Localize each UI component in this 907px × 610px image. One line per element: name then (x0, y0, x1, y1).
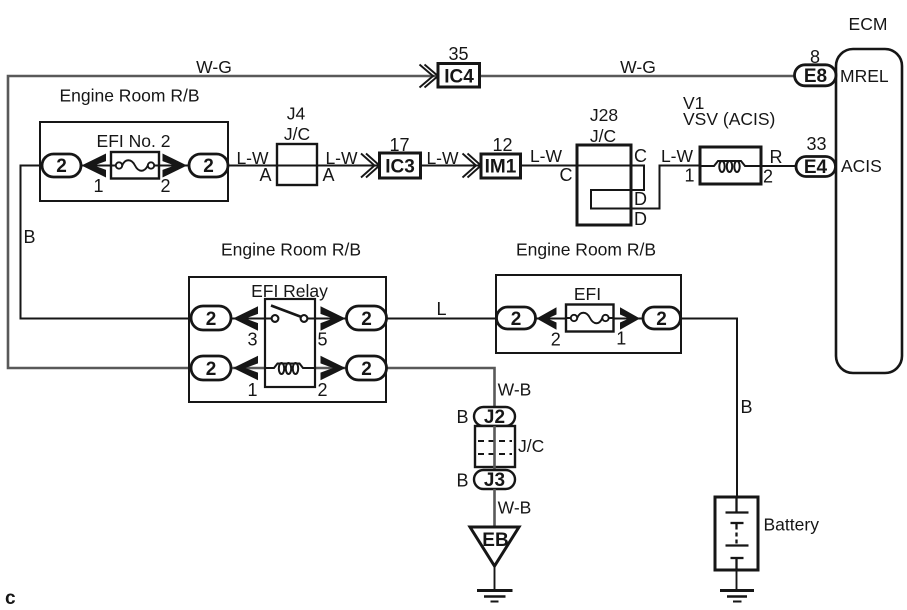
svg-text:VSV (ACIS): VSV (ACIS) (683, 109, 775, 129)
wire L from relay to EFI fuse (386, 318, 496, 320)
ground symbol EB (477, 591, 513, 602)
svg-text:2: 2 (206, 309, 217, 330)
connector oval 2 relay pin3 (191, 306, 231, 330)
svg-text:2: 2 (203, 156, 214, 177)
battery cells (726, 497, 749, 570)
fuse EFI (566, 305, 614, 332)
svg-text:B: B (740, 397, 752, 417)
svg-text:B: B (23, 227, 35, 247)
svg-text:2: 2 (551, 330, 561, 350)
coil of VSV (700, 161, 761, 172)
svg-text:A: A (322, 165, 334, 185)
wire W-B from relay to J2 (386, 368, 495, 407)
svg-text:1: 1 (616, 329, 626, 349)
svg-text:J3: J3 (484, 470, 505, 491)
svg-text:2: 2 (511, 309, 522, 330)
svg-text:1: 1 (93, 176, 103, 196)
svg-text:5: 5 (317, 330, 327, 350)
wire L-W from IC3 to IM1 (421, 165, 482, 167)
arrow EFI fuse pin1 (620, 307, 640, 330)
connector IC3 box (380, 153, 421, 178)
svg-text:ACIS: ACIS (841, 156, 882, 176)
relay inner box (265, 299, 315, 387)
svg-text:Engine Room R/B: Engine Room R/B (516, 240, 656, 260)
svg-text:L: L (436, 299, 446, 319)
svg-text:C: C (634, 146, 647, 166)
chevron splice before IC3 (361, 154, 380, 178)
chevron splice before IC4 (420, 65, 439, 88)
solenoid V1 VSV box (700, 147, 761, 184)
connector oval 2 left of EFI No.2 (42, 154, 81, 177)
svg-text:L-W: L-W (426, 148, 459, 168)
svg-text:2: 2 (361, 309, 372, 330)
svg-text:12: 12 (492, 135, 512, 155)
svg-text:W-B: W-B (498, 498, 532, 518)
svg-text:35: 35 (448, 44, 468, 64)
wire EFI No.2 fuse row (81, 165, 189, 167)
battery box (715, 497, 758, 570)
wire relay switch row (191, 318, 347, 320)
svg-text:J/C: J/C (284, 124, 310, 144)
ground point EB triangle (470, 527, 519, 566)
coil of relay (265, 363, 315, 374)
wire relay coil row gray (191, 367, 386, 370)
wire J3 to EB (493, 489, 496, 527)
svg-text:2: 2 (160, 176, 170, 196)
svg-text:17: 17 (389, 135, 409, 155)
wire B from EFI fuse to battery (681, 319, 737, 498)
svg-text:33: 33 (806, 134, 826, 154)
svg-text:8: 8 (810, 47, 820, 67)
wire EFI fuse row (535, 318, 643, 320)
connector IC4 box (438, 64, 480, 88)
svg-text:W-G: W-G (196, 57, 232, 77)
arrow EFI fuse pin2 (537, 307, 557, 330)
svg-text:J28: J28 (590, 105, 618, 125)
svg-text:J/C: J/C (590, 126, 616, 146)
svg-text:EFI No. 2: EFI No. 2 (97, 131, 171, 151)
svg-text:2: 2 (656, 309, 667, 330)
EFI Relay block box (189, 277, 386, 402)
EFI fuse block box (496, 275, 681, 353)
svg-text:EB: EB (482, 530, 508, 551)
wire W-G from MREL run: left vertical and top horizontal (8, 76, 438, 368)
svg-text:1: 1 (684, 166, 694, 186)
svg-text:L-W: L-W (530, 146, 563, 166)
svg-text:ECM: ECM (849, 14, 888, 34)
arrow relay pin5 (321, 306, 346, 331)
connector E8 oval (795, 65, 837, 86)
svg-text:W-G: W-G (620, 57, 656, 77)
fuse EFI No.2 (111, 152, 159, 179)
wire B from EFI No.2 pin1 down to relay pin3 (21, 166, 192, 319)
svg-text:2: 2 (361, 359, 372, 380)
connector oval 2 right of EFI No.2 (189, 154, 228, 177)
switch of relay (265, 306, 315, 322)
svg-text:E4: E4 (804, 157, 828, 178)
svg-text:c: c (5, 588, 16, 609)
svg-text:W-B: W-B (498, 380, 532, 400)
wire L-W from EFI No.2 to IC3 through J4 (228, 165, 380, 167)
connector oval 2 EFI fuse right (643, 307, 681, 329)
wire R from VSV to E4 (761, 165, 796, 167)
svg-text:B: B (456, 407, 468, 427)
connector J2 oval (474, 407, 515, 426)
junction J28 J/C box (577, 145, 631, 225)
arrow relay pin1 (233, 356, 258, 381)
svg-text:Engine Room R/B: Engine Room R/B (59, 86, 199, 106)
connector oval 2 EFI fuse left (497, 307, 536, 329)
wire L-W from IM1 to J28 (520, 165, 577, 167)
arrow relay pin2 (321, 356, 346, 381)
ground symbol battery (720, 591, 754, 602)
arrow relay pin3 (233, 306, 258, 331)
svg-text:C: C (560, 165, 573, 185)
wire inside J28 C to D (577, 166, 700, 209)
svg-text:IM1: IM1 (485, 157, 517, 178)
dashed internals of J/C (478, 441, 512, 454)
chevron splice before IM1 (463, 154, 482, 178)
connector IM1 box (481, 154, 521, 178)
svg-text:1: 1 (247, 380, 257, 400)
svg-text:2: 2 (317, 380, 327, 400)
wire through J/C (493, 426, 496, 470)
junction J2-J3 J/C box (475, 426, 515, 467)
EFI No.2 block box (40, 122, 228, 201)
arrow into EFI No.2 pin1 (82, 154, 107, 178)
svg-text:2: 2 (763, 167, 773, 187)
connector oval 2 relay pin2 (347, 356, 387, 380)
svg-text:EFI: EFI (574, 284, 601, 304)
connector oval 2 relay pin1 (191, 356, 231, 380)
svg-text:2: 2 (56, 156, 67, 177)
wire EB to ground (494, 566, 496, 590)
svg-text:A: A (259, 165, 271, 185)
junction J4 J/C box (277, 144, 317, 185)
svg-text:2: 2 (206, 359, 217, 380)
svg-text:J4: J4 (287, 104, 306, 124)
svg-text:B: B (456, 471, 468, 491)
svg-text:L-W: L-W (661, 146, 694, 166)
wire W-G from IC4 to E8 (480, 75, 796, 78)
connector J3 oval (474, 470, 515, 489)
svg-text:D: D (634, 189, 647, 209)
svg-text:Battery: Battery (764, 515, 820, 535)
svg-text:IC3: IC3 (385, 157, 415, 178)
svg-text:J/C: J/C (518, 436, 544, 456)
svg-text:E8: E8 (804, 66, 827, 87)
svg-text:MREL: MREL (840, 66, 889, 86)
connector oval 2 relay pin5 (347, 306, 387, 330)
svg-text:IC4: IC4 (444, 67, 474, 88)
arrow out EFI No.2 pin2 (163, 154, 188, 178)
connector E4 oval (796, 157, 836, 177)
svg-text:Engine Room R/B: Engine Room R/B (221, 240, 361, 260)
ECM body (836, 49, 902, 373)
wire battery to ground (736, 570, 738, 590)
svg-text:R: R (770, 147, 783, 167)
svg-text:D: D (634, 209, 647, 229)
svg-text:3: 3 (247, 330, 257, 350)
